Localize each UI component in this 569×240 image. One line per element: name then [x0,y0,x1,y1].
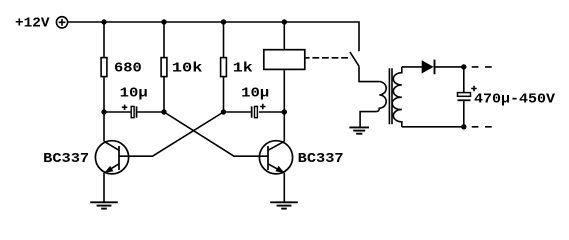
node rail-R1 [101,19,106,24]
ground GND1 [90,202,118,208]
node rail-relay [282,19,287,24]
node B [161,109,166,114]
transistor Q2 BC337 [259,141,292,174]
wire relay coil to node D [283,70,285,112]
capacitor C1 10u [131,106,137,117]
resistor R1 680 [101,58,107,77]
polarity + of C3 [471,86,477,92]
node rail-R3 [221,19,226,24]
wire node D to Q2 collector [283,112,285,142]
wire node B to Q2 base (cross coupling) [164,112,268,156]
wire node A to C1 [104,111,131,113]
svg-text:680: 680 [114,61,142,77]
wire C1 to node B [137,111,164,113]
polarity + of C1 [122,105,127,110]
svg-text:10µ: 10µ [120,86,148,102]
svg-text:BC337: BC337 [298,151,344,167]
resistor R3 1k [221,58,227,77]
svg-text:1k: 1k [233,61,254,77]
node D [282,109,287,114]
wire diode to node E [435,66,464,68]
dashed output lead top [472,66,492,68]
ground GND3 [349,127,369,133]
transformer T1 secondary winding [392,67,402,127]
polarity + of C2 [260,104,265,109]
wire node C to C2 [224,111,251,113]
wire C3 to node F [463,101,465,127]
node A [101,109,106,114]
dashed mechanical link relay to switch [306,57,351,59]
svg-text:10µ: 10µ [241,86,269,102]
node rail-R2 [161,19,166,24]
wire Q2 emitter to ground [283,173,285,202]
wire R3 to node C [223,77,225,112]
wire C2 to node D [259,111,284,113]
wire switch to transformer primary [359,66,379,81]
wire rail to R1 [103,22,105,58]
wire node A to Q1 collector [103,112,105,142]
wire +12V rail to switch corner [68,22,359,51]
wire secondary bottom to node F [402,126,464,128]
switch S1 blade [350,52,359,66]
capacitor C2 10u [251,106,258,117]
wire rail to R3 [223,22,225,58]
node F [461,124,466,129]
transformer T1 core [389,68,392,124]
node C [221,109,226,114]
svg-text:10k: 10k [172,61,203,77]
wire rail to relay coil [283,22,285,49]
wire R2 to node B [163,77,165,112]
wire node E to C3 [463,67,465,93]
diode D1 [422,60,435,75]
transformer T1 primary winding [360,82,386,127]
wire Q1 emitter to ground [103,173,105,202]
dashed output lead bottom [472,126,492,128]
svg-text:+12V: +12V [15,16,50,32]
wire node C to Q1 base (cross coupling) [119,112,224,156]
transistor Q1 BC337 [95,141,128,174]
wire secondary top to diode [402,66,422,68]
supply terminal +12V [56,17,67,28]
wire rail to R2 [163,22,165,58]
resistor R2 10k [161,58,167,77]
svg-text:470µ-450V: 470µ-450V [474,92,556,108]
relay coil K1 [264,50,305,70]
wire R1 to node A [103,77,105,112]
node E [461,64,466,69]
capacitor C3 470u [458,93,471,102]
ground GND2 [270,202,298,208]
svg-text:BC337: BC337 [43,151,89,167]
